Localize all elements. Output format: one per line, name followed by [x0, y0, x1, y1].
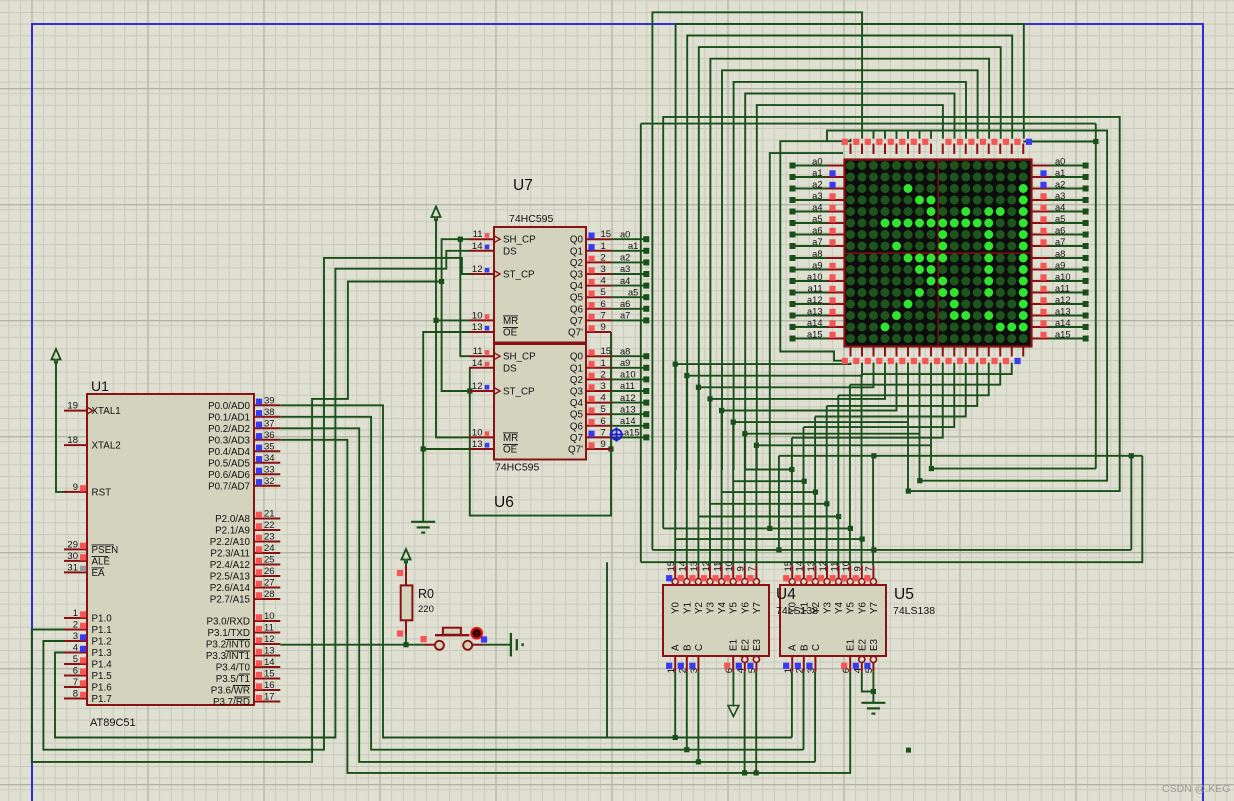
- svg-text:↕: ↕: [475, 630, 479, 639]
- svg-text:Q3: Q3: [570, 270, 584, 281]
- svg-text:Q7': Q7': [568, 445, 583, 456]
- svg-text:5: 5: [747, 668, 758, 673]
- svg-text:a13: a13: [807, 306, 823, 316]
- svg-text:2: 2: [601, 369, 606, 380]
- svg-text:7: 7: [864, 566, 875, 571]
- svg-text:P0.3/AD3: P0.3/AD3: [208, 435, 250, 446]
- svg-text:ST_CP: ST_CP: [503, 387, 535, 398]
- svg-text:P1.6: P1.6: [92, 683, 113, 694]
- svg-text:E3: E3: [752, 638, 763, 651]
- svg-text:a7: a7: [1055, 237, 1065, 247]
- svg-text:13: 13: [472, 439, 483, 450]
- svg-text:8: 8: [73, 689, 78, 700]
- svg-text:74LS138: 74LS138: [776, 605, 818, 617]
- svg-text:4: 4: [736, 668, 747, 673]
- svg-text:a6: a6: [812, 225, 822, 235]
- svg-text:P1.5: P1.5: [92, 671, 113, 682]
- svg-text:a5: a5: [628, 287, 638, 297]
- svg-text:1: 1: [601, 241, 606, 252]
- svg-text:a11: a11: [620, 381, 635, 391]
- svg-text:SH_CP: SH_CP: [503, 235, 536, 246]
- svg-text:Q2: Q2: [570, 375, 583, 386]
- svg-text:5: 5: [601, 404, 606, 415]
- svg-text:7: 7: [747, 566, 758, 571]
- svg-text:Y5: Y5: [729, 601, 740, 614]
- svg-text:a1: a1: [628, 241, 638, 251]
- svg-text:17: 17: [264, 692, 275, 703]
- svg-text:Q5: Q5: [570, 293, 584, 304]
- svg-text:9: 9: [73, 482, 78, 493]
- svg-text:2: 2: [678, 668, 689, 673]
- svg-text:3: 3: [73, 631, 78, 642]
- svg-text:12: 12: [472, 381, 483, 392]
- svg-text:a14: a14: [620, 416, 636, 426]
- svg-text:15: 15: [666, 561, 677, 572]
- svg-text:A: A: [671, 644, 682, 651]
- svg-text:P2.2/A10: P2.2/A10: [210, 537, 251, 548]
- svg-text:a11: a11: [808, 283, 823, 293]
- svg-text:AT89C51: AT89C51: [90, 717, 136, 729]
- svg-text:14: 14: [264, 657, 275, 668]
- svg-text:a9: a9: [1055, 260, 1065, 270]
- svg-text:P0.2/AD2: P0.2/AD2: [208, 424, 250, 435]
- svg-text:a2: a2: [620, 253, 630, 263]
- svg-text:a15: a15: [807, 329, 823, 339]
- svg-text:9: 9: [601, 322, 606, 333]
- svg-text:P0.5/AD5: P0.5/AD5: [208, 458, 250, 469]
- svg-text:B: B: [799, 644, 810, 651]
- svg-text:a13: a13: [1055, 306, 1071, 316]
- svg-text:a10: a10: [1055, 272, 1071, 282]
- svg-text:6: 6: [73, 666, 78, 677]
- svg-text:DS: DS: [503, 363, 517, 374]
- svg-text:36: 36: [264, 430, 275, 441]
- svg-text:11: 11: [473, 346, 483, 357]
- svg-text:P1.7: P1.7: [92, 694, 112, 705]
- svg-text:33: 33: [264, 464, 275, 475]
- svg-text:P0.7/AD7: P0.7/AD7: [208, 481, 250, 492]
- svg-text:E1: E1: [846, 639, 857, 651]
- svg-text:1: 1: [666, 668, 677, 673]
- svg-text:a7: a7: [812, 237, 822, 247]
- svg-text:Y0: Y0: [671, 601, 682, 614]
- svg-text:15: 15: [601, 229, 612, 240]
- svg-text:34: 34: [264, 453, 275, 464]
- svg-text:PSEN: PSEN: [92, 545, 119, 556]
- svg-text:U7: U7: [513, 177, 533, 194]
- svg-text:P0.1/AD1: P0.1/AD1: [208, 412, 250, 423]
- svg-text:10: 10: [264, 611, 275, 622]
- svg-text:Y1: Y1: [682, 602, 693, 614]
- svg-text:7: 7: [601, 427, 606, 438]
- svg-text:P2.4/A12: P2.4/A12: [210, 560, 250, 571]
- svg-text:9: 9: [853, 566, 864, 571]
- svg-text:U5: U5: [894, 586, 914, 603]
- svg-text:P3.2/INT0: P3.2/INT0: [206, 640, 251, 651]
- svg-text:P3.0/RXD: P3.0/RXD: [206, 617, 250, 628]
- svg-text:35: 35: [264, 441, 275, 452]
- svg-text:P1.3: P1.3: [92, 648, 113, 659]
- svg-text:18: 18: [67, 435, 78, 446]
- svg-text:22: 22: [264, 520, 275, 531]
- svg-text:Q5: Q5: [570, 410, 584, 421]
- svg-text:E2: E2: [857, 639, 868, 651]
- svg-text:13: 13: [264, 646, 275, 657]
- svg-text:Y4: Y4: [717, 601, 728, 614]
- svg-text:13: 13: [689, 561, 700, 572]
- svg-text:4: 4: [853, 668, 864, 673]
- svg-text:a4: a4: [1055, 202, 1065, 212]
- svg-text:26: 26: [264, 566, 275, 577]
- svg-text:P1.4: P1.4: [92, 660, 113, 671]
- svg-text:2: 2: [601, 252, 606, 263]
- svg-text:a2: a2: [812, 179, 822, 189]
- svg-text:P2.7/A15: P2.7/A15: [210, 595, 251, 606]
- svg-text:6: 6: [601, 299, 606, 310]
- svg-text:37: 37: [264, 418, 275, 429]
- svg-text:P1.1: P1.1: [92, 625, 112, 636]
- svg-text:a15: a15: [624, 428, 640, 438]
- svg-text:Q3: Q3: [570, 387, 584, 398]
- svg-text:a10: a10: [620, 370, 636, 380]
- svg-text:Q4: Q4: [570, 398, 584, 409]
- svg-text:3: 3: [601, 381, 606, 392]
- svg-text:21: 21: [264, 509, 275, 520]
- svg-text:a6: a6: [1055, 225, 1065, 235]
- svg-text:a8: a8: [1055, 249, 1065, 259]
- svg-text:a0: a0: [812, 156, 822, 166]
- svg-text:Y7: Y7: [869, 602, 880, 614]
- svg-text:P2.1/A9: P2.1/A9: [215, 526, 250, 537]
- svg-text:31: 31: [67, 562, 78, 573]
- svg-text:Y3: Y3: [823, 601, 834, 614]
- svg-text:Y6: Y6: [740, 601, 751, 614]
- svg-text:2: 2: [795, 668, 806, 673]
- svg-text:U4: U4: [776, 586, 796, 603]
- svg-text:10: 10: [841, 561, 852, 572]
- svg-text:a15: a15: [1055, 329, 1071, 339]
- svg-text:11: 11: [264, 623, 274, 634]
- svg-text:U6: U6: [494, 494, 514, 511]
- svg-text:4: 4: [601, 276, 606, 287]
- svg-text:7: 7: [601, 310, 606, 321]
- svg-text:a12: a12: [620, 393, 636, 403]
- svg-text:74LS138: 74LS138: [893, 605, 935, 617]
- svg-text:74HC595: 74HC595: [495, 462, 540, 474]
- svg-text:39: 39: [264, 395, 275, 406]
- svg-text:P3.6/WR: P3.6/WR: [211, 686, 250, 697]
- svg-text:a7: a7: [620, 311, 630, 321]
- svg-text:5: 5: [73, 654, 78, 665]
- svg-text:a1: a1: [1055, 168, 1065, 178]
- svg-text:6: 6: [724, 668, 735, 673]
- svg-text:SH_CP: SH_CP: [503, 352, 536, 363]
- svg-text:3: 3: [689, 668, 700, 673]
- svg-text:P2.5/A13: P2.5/A13: [210, 572, 251, 583]
- svg-text:12: 12: [818, 561, 829, 572]
- svg-text:a2: a2: [1055, 179, 1065, 189]
- svg-text:14: 14: [472, 358, 483, 369]
- svg-text:P0.4/AD4: P0.4/AD4: [208, 447, 250, 458]
- svg-text:P3.5/T1: P3.5/T1: [216, 674, 250, 685]
- svg-text:P2.6/A14: P2.6/A14: [210, 583, 251, 594]
- svg-text:15: 15: [601, 346, 612, 357]
- svg-text:Q4: Q4: [570, 281, 584, 292]
- svg-text:Q6: Q6: [570, 304, 584, 315]
- svg-text:OE: OE: [503, 445, 518, 456]
- svg-text:Q1: Q1: [570, 246, 583, 257]
- svg-text:9: 9: [601, 439, 606, 450]
- svg-text:a9: a9: [620, 358, 630, 368]
- svg-text:P1.0: P1.0: [92, 614, 113, 625]
- svg-text:12: 12: [701, 561, 712, 572]
- svg-text:Q0: Q0: [570, 235, 584, 246]
- svg-text:P3.7/RD: P3.7/RD: [213, 697, 250, 708]
- svg-text:CSDN @.KEG: CSDN @.KEG: [1162, 783, 1230, 795]
- svg-text:P2.0/A8: P2.0/A8: [215, 514, 250, 525]
- svg-text:a12: a12: [1055, 295, 1071, 305]
- svg-text:24: 24: [264, 543, 275, 554]
- svg-text:Y2: Y2: [694, 602, 705, 614]
- svg-text:Q7': Q7': [568, 328, 583, 339]
- svg-text:Y5: Y5: [846, 601, 857, 614]
- svg-text:a13: a13: [620, 404, 636, 414]
- svg-text:E2: E2: [740, 639, 751, 651]
- svg-text:a3: a3: [1055, 191, 1065, 201]
- svg-text:25: 25: [264, 555, 275, 566]
- svg-text:OE: OE: [503, 328, 518, 339]
- svg-text:9: 9: [736, 566, 747, 571]
- svg-text:10: 10: [472, 427, 483, 438]
- svg-text:a1: a1: [812, 168, 822, 178]
- svg-text:Q0: Q0: [570, 352, 584, 363]
- svg-text:a14: a14: [807, 318, 823, 328]
- svg-text:Y4: Y4: [834, 601, 845, 614]
- svg-text:Q7: Q7: [570, 433, 583, 444]
- svg-text:a9: a9: [812, 260, 822, 270]
- svg-text:RST: RST: [92, 487, 112, 498]
- svg-text:74HC595: 74HC595: [509, 213, 554, 225]
- svg-text:E3: E3: [869, 638, 880, 651]
- svg-text:Q1: Q1: [570, 363, 583, 374]
- svg-text:10: 10: [472, 310, 483, 321]
- svg-text:38: 38: [264, 407, 275, 418]
- svg-text:a14: a14: [1055, 318, 1071, 328]
- svg-text:6: 6: [841, 668, 852, 673]
- svg-text:Y6: Y6: [857, 601, 868, 614]
- svg-text:a6: a6: [620, 299, 630, 309]
- svg-text:DS: DS: [503, 246, 517, 257]
- svg-text:19: 19: [67, 401, 78, 412]
- svg-text:16: 16: [264, 680, 275, 691]
- svg-text:11: 11: [473, 229, 483, 240]
- svg-text:C: C: [811, 644, 822, 651]
- svg-text:a3: a3: [812, 191, 822, 201]
- svg-text:P2.3/A11: P2.3/A11: [210, 549, 250, 560]
- svg-text:30: 30: [67, 551, 78, 562]
- svg-text:10: 10: [724, 561, 735, 572]
- svg-text:EA: EA: [92, 568, 106, 579]
- svg-text:P0.6/AD6: P0.6/AD6: [208, 470, 250, 481]
- svg-text:A: A: [788, 644, 799, 651]
- svg-text:a5: a5: [1055, 214, 1065, 224]
- svg-text:ALE: ALE: [92, 556, 111, 567]
- svg-text:5: 5: [601, 287, 606, 298]
- svg-text:E1: E1: [729, 639, 740, 651]
- svg-text:4: 4: [601, 393, 606, 404]
- svg-text:4: 4: [73, 643, 78, 654]
- svg-text:12: 12: [264, 634, 275, 645]
- svg-text:a0: a0: [620, 229, 630, 239]
- svg-text:P0.0/AD0: P0.0/AD0: [208, 401, 250, 412]
- svg-text:Y7: Y7: [752, 602, 763, 614]
- svg-text:14: 14: [472, 241, 483, 252]
- svg-text:23: 23: [264, 532, 275, 543]
- svg-text:6: 6: [601, 416, 606, 427]
- svg-text:12: 12: [472, 264, 483, 275]
- svg-text:XTAL1: XTAL1: [92, 406, 121, 417]
- svg-text:a8: a8: [620, 346, 630, 356]
- svg-text:Q2: Q2: [570, 258, 583, 269]
- svg-text:a12: a12: [807, 295, 823, 305]
- svg-text:1: 1: [73, 608, 78, 619]
- svg-text:29: 29: [67, 539, 78, 550]
- svg-text:220: 220: [418, 604, 434, 615]
- svg-text:a4: a4: [620, 276, 630, 286]
- svg-text:a4: a4: [812, 202, 822, 212]
- svg-text:13: 13: [806, 561, 817, 572]
- svg-text:Q6: Q6: [570, 421, 584, 432]
- svg-text:27: 27: [264, 578, 275, 589]
- svg-text:Y3: Y3: [706, 601, 717, 614]
- svg-text:14: 14: [678, 561, 689, 572]
- svg-text:5: 5: [864, 668, 875, 673]
- svg-text:13: 13: [472, 322, 483, 333]
- svg-text:MR: MR: [503, 433, 518, 444]
- svg-text:28: 28: [264, 589, 275, 600]
- svg-text:a10: a10: [807, 272, 823, 282]
- svg-text:15: 15: [264, 669, 275, 680]
- svg-text:B: B: [682, 644, 693, 651]
- svg-text:a3: a3: [620, 264, 630, 274]
- svg-text:1: 1: [783, 668, 794, 673]
- svg-text:a11: a11: [1055, 283, 1070, 293]
- svg-text:R0: R0: [418, 587, 434, 601]
- svg-text:32: 32: [264, 476, 275, 487]
- svg-text:15: 15: [783, 561, 794, 572]
- svg-text:ST_CP: ST_CP: [503, 270, 535, 281]
- svg-text:7: 7: [73, 677, 78, 688]
- svg-text:a0: a0: [1055, 156, 1065, 166]
- svg-text:2: 2: [73, 620, 78, 631]
- svg-text:C: C: [694, 644, 705, 651]
- svg-text:3: 3: [601, 264, 606, 275]
- svg-text:a5: a5: [812, 214, 822, 224]
- svg-text:11: 11: [712, 562, 723, 572]
- svg-text:P1.2: P1.2: [92, 637, 112, 648]
- svg-text:P3.4/T0: P3.4/T0: [216, 663, 251, 674]
- svg-text:3: 3: [806, 668, 817, 673]
- svg-text:14: 14: [795, 561, 806, 572]
- svg-text:XTAL2: XTAL2: [92, 441, 121, 452]
- svg-text:a8: a8: [812, 249, 822, 259]
- svg-text:P3.3/INT1: P3.3/INT1: [206, 651, 250, 662]
- svg-text:P3.1/TXD: P3.1/TXD: [208, 628, 250, 639]
- svg-text:Q7: Q7: [570, 316, 583, 327]
- svg-text:MR: MR: [503, 316, 518, 327]
- svg-text:1: 1: [601, 358, 606, 369]
- svg-text:11: 11: [829, 562, 840, 572]
- svg-text:U1: U1: [91, 378, 109, 394]
